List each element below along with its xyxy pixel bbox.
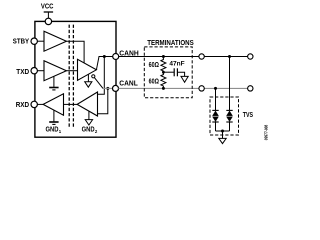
node dot TVS common — [221, 130, 224, 133]
ground stub under RXD buffer — [53, 110, 55, 121]
wire CANL dot down to TVS diode D1 — [215, 88, 217, 110]
driver inverting bubble — [92, 75, 95, 78]
svg-text:TERMINATIONS: TERMINATIONS — [147, 40, 194, 47]
wire driver tip diagonal to CANH — [96, 57, 104, 70]
ground arrow after capacitor — [181, 76, 188, 82]
node dot termination centre tap — [162, 71, 165, 74]
svg-text:RXD: RXD — [16, 100, 30, 109]
svg-text:GND: GND — [46, 127, 59, 134]
wire CANL bus line — [119, 87, 199, 89]
buffer TXD (logic side) — [44, 61, 66, 81]
VCC supply bar — [44, 11, 53, 13]
node dot CANL termination tap — [162, 87, 165, 90]
TVS diode pair D1 — [212, 109, 218, 111]
pin RXD circle — [31, 101, 37, 107]
isolation barrier dashed line 1 — [68, 25, 70, 128]
bus connector circle CANH right — [248, 54, 253, 59]
buffer STBY (logic side) — [44, 31, 66, 51]
node dot CANL TVS tap — [214, 87, 217, 90]
pin TXD circle — [31, 68, 37, 74]
bus connector circle CANH left — [199, 54, 204, 59]
receiver (bus side, points left) — [77, 92, 97, 116]
ground arrow under driver — [85, 82, 92, 88]
buffer RXD (logic side, points left) — [43, 94, 63, 115]
node dot CANH receiver tap — [103, 55, 106, 58]
capacitor C1 47nF — [173, 68, 175, 76]
wire CANH inside IC — [99, 56, 113, 58]
svg-text:STBY: STBY — [13, 37, 29, 46]
svg-text:VCC: VCC — [41, 1, 54, 10]
svg-text:TVS: TVS — [243, 110, 253, 119]
node dot CANL receiver tap — [106, 87, 109, 90]
bus connector circle CANL right — [248, 86, 253, 91]
wire CANH dot down to TVS diode D2 — [229, 57, 231, 111]
ground symbol under RXD buffer — [49, 121, 58, 123]
wire RXD buffer input across barrier — [64, 103, 78, 105]
pin STBY circle — [31, 38, 37, 44]
wire TXD buffer output across barrier — [66, 70, 77, 72]
node dot CANH TVS tap — [228, 55, 231, 58]
pin CANL circle — [113, 85, 119, 91]
svg-text:GND: GND — [82, 126, 95, 133]
ground arrow under receiver — [85, 120, 92, 125]
ground-arrow stub under receiver — [88, 111, 90, 119]
wire CANL inside IC — [103, 87, 113, 89]
TVS dashed box — [210, 97, 239, 135]
pin CANH circle — [113, 54, 119, 60]
wire receiver bottom input from CANL — [98, 88, 108, 113]
terminations dashed box — [144, 47, 192, 98]
ground symbol under TXD buffer — [49, 87, 58, 89]
wire STBY pin to buffer — [37, 40, 44, 42]
svg-text:09977-008: 09977-008 — [263, 124, 268, 140]
wire TVS common to ground arrow — [222, 131, 224, 138]
ground-arrow stub under driver — [87, 74, 89, 81]
resistor R1 60ohm — [161, 57, 166, 73]
wire TVS common bottom — [216, 130, 230, 132]
wire VCC stub — [47, 12, 49, 18]
ground stub under TXD buffer — [53, 76, 55, 87]
TVS diode pair D2 — [226, 109, 232, 111]
svg-text:TXD: TXD — [16, 67, 29, 76]
svg-text:47nF: 47nF — [169, 60, 184, 67]
wire STBY buffer output across barrier — [66, 41, 84, 63]
wire driver bubble diagonal to CANL — [94, 78, 103, 89]
resistor R2 60ohm — [161, 72, 166, 88]
wire RXD pin to buffer — [37, 103, 43, 105]
driver (bus side) — [78, 59, 97, 80]
svg-text:CANL: CANL — [119, 79, 138, 88]
wire centre tap to capacitor — [163, 71, 174, 73]
isolation barrier dashed line 2 — [72, 25, 74, 128]
wire CANH bus line — [119, 56, 199, 58]
wire receiver top input from CANH — [98, 57, 105, 95]
wire TXD pin to buffer — [37, 70, 44, 72]
bus connector circle CANL left — [199, 86, 204, 91]
node dot CANH termination tap — [162, 55, 165, 58]
ground arrow under TVS — [219, 138, 226, 143]
pin VCC circle — [45, 18, 51, 24]
svg-text:60Ω: 60Ω — [149, 76, 159, 85]
svg-text:60Ω: 60Ω — [149, 60, 159, 69]
IC box U1 — [35, 21, 116, 137]
wire capacitor to ground arrow — [177, 72, 184, 76]
